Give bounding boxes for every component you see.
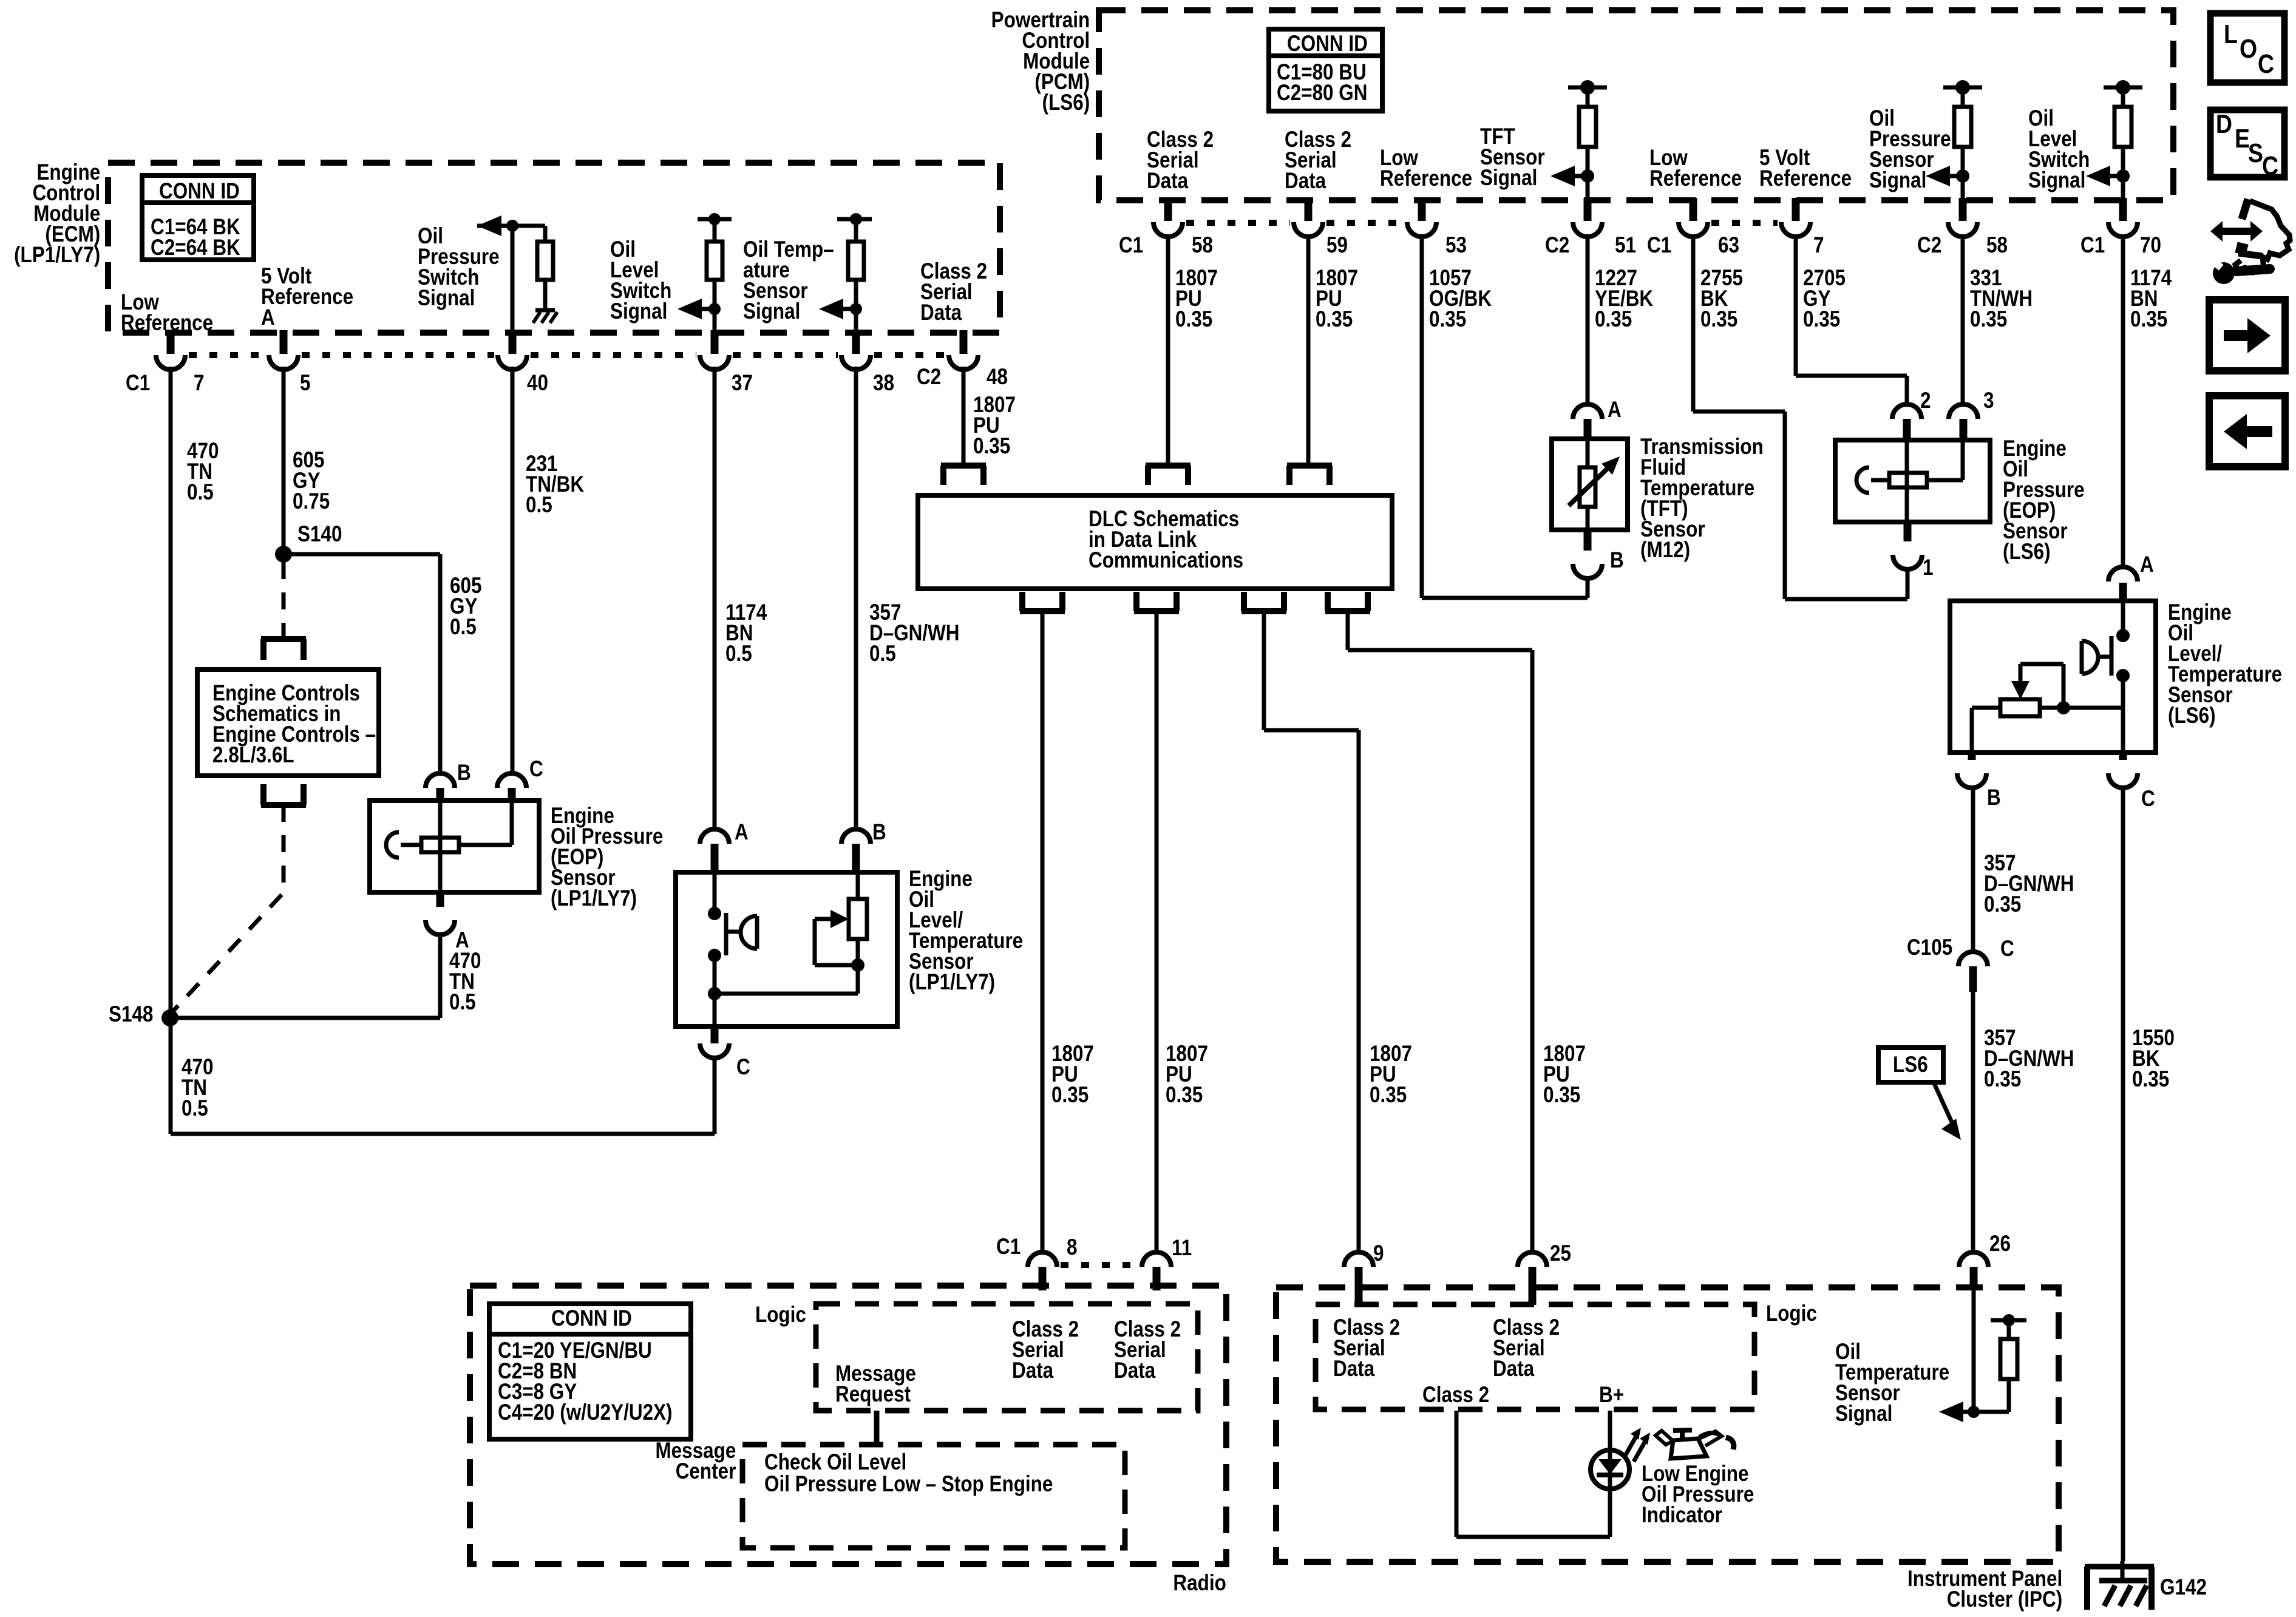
ECM pin connector arc at x=1587 (949, 355, 978, 370)
wire: 1807 PU 0.35 from ECM pin 48 to DLC (962, 367, 966, 464)
module box: Radio dashed outline (470, 1286, 1226, 1564)
label: 58 (1192, 235, 1213, 256)
label: 40 (527, 373, 548, 393)
label: 1807 PU 0.35 (973, 395, 1016, 456)
wire: message request from Radio logic to message center (874, 1411, 880, 1445)
wire: 605 GY 0.75 from ECM pin 5 to splice S140 (282, 367, 286, 554)
TFT pin B stub+arc (1584, 527, 1592, 551)
wire: 1550 BK 0.35 sensor C to ground G142 (2121, 787, 2125, 1561)
label: 7 (1813, 235, 1824, 256)
hand/tools icon: part outline with thumb bar (2242, 199, 2248, 219)
label: C2 (1545, 235, 1569, 256)
LVL LP1 pin B stub+arc (852, 844, 860, 875)
wire: pin40 vertical inside ECM (511, 226, 515, 331)
wire: 1807 PU 0.35 DLC to IPC pin 25 (1346, 611, 1350, 650)
label: C1 (1647, 235, 1671, 256)
label: Logic (1766, 1303, 1817, 1324)
navigation box: back arrow (2209, 396, 2285, 467)
label: 7 (194, 373, 204, 393)
PCM pin stub at x=2155 (1305, 198, 1313, 221)
label: Powertrain Control Module (PCM) (LS6) (991, 10, 1090, 113)
label: CONN ID (551, 1308, 632, 1329)
label: 1550 BK 0.35 (2132, 1028, 2175, 1090)
label: 1057 OG/BK 0.35 (1429, 268, 1492, 330)
PCM pin stub at x=2342 (1418, 198, 1426, 221)
wire: 357 D-GN/WH 0.35 sensor B to C105 (1971, 787, 1975, 952)
label: 5 (300, 373, 310, 393)
sensor box: Engine Oil Pressure (EOP) Sensor (LS6) (1835, 440, 1990, 522)
label: 59 (1326, 235, 1348, 256)
ECM pin connector arc at x=1177 (700, 355, 729, 370)
label: 8 (1067, 1237, 1077, 1258)
wire: 1807 PU 0.35 DLC to IPC pin 9 (1262, 611, 1266, 730)
label: 1174 BN 0.5 (725, 602, 767, 664)
ECM oil temperature sensor signal pull-up: T-bar, resistor, arrow (pin 38) (837, 217, 872, 222)
label: 9 (1373, 1243, 1384, 1264)
LVL LP1 float switch: contacts and float symbol (713, 872, 717, 914)
label: C1=20 YE/GN/BU C2=8 BN C3=8 GY C4=20 (w/U2Y/U2X) (498, 1340, 673, 1423)
PCM pin connector arc at x=2958 (1781, 222, 1810, 237)
CONN ID table (ECM) (142, 175, 254, 260)
label: 70 (2140, 235, 2161, 256)
EOP LP1 internal: arc electrode, resistor, link to pin C (386, 832, 399, 858)
dashed wire: Engine Controls box down then diagonal to S148 (282, 805, 286, 891)
label: 357 D–GN/WH 0.5 (869, 602, 960, 664)
label: 11 (1172, 1238, 1192, 1258)
wire: 331 TN/WH 0.35 PCM pin 58 C2 to EOP (LS6) pin 3 (1961, 236, 1965, 405)
EOP LS6 internal: arc electrode, resistor, link to pin 3 (1856, 467, 1869, 493)
label: 1807 PU 0.35 (1316, 268, 1358, 330)
label: Class 2 Serial Data (1285, 129, 1351, 191)
label: G142 (2160, 1577, 2207, 1598)
DLC bottom connector bracket at x=1905 (1134, 608, 1179, 614)
block: Engine Controls Schematics reference box (197, 670, 379, 776)
label: 1807 PU 0.35 (1051, 1043, 1094, 1105)
LVL LP1 pin C stub+arc (711, 1024, 719, 1043)
LVL LP1 thermistor: resistor, loop arrow, junction (715, 992, 858, 996)
TFT thermistor resistor (1586, 439, 1590, 467)
label: Oil Pressure Sensor Signal (1869, 108, 1951, 191)
IPC pin 25 arc+stub (1518, 1252, 1547, 1267)
module box: Powertrain Control Module (PCM) dashed outline (1099, 10, 2173, 200)
label: Class 2 Serial Data (1012, 1319, 1079, 1381)
label: Oil Level Switch Signal (2028, 108, 2090, 191)
label: Low Engine Oil Pressure Indicator (1642, 1463, 1754, 1525)
ECM pin stub at x=281 (167, 330, 175, 354)
PCM oil level switch signal pull-up: T-bar, resistor, junction, arrow (x=3497) (2104, 86, 2142, 90)
LVL LP1 pin A stub+arc (711, 844, 719, 875)
wire: S148 horizontal to EOP sensor pin A wire (170, 1016, 440, 1020)
label: Oil Pressure Switch Signal (418, 226, 500, 308)
label: A (2140, 554, 2154, 575)
label: C2 (1917, 235, 1941, 256)
ECM pin stub at x=844 (509, 330, 517, 354)
wire: 605 GY 0.5 from S140 right and down to EOP (LP1/LY7) pin B (284, 552, 440, 557)
label: 5 Volt Reference A (261, 266, 353, 328)
label: B (1610, 550, 1624, 571)
label: 38 (873, 373, 894, 393)
label: 331 TN/WH 0.35 (1970, 268, 2033, 330)
wire: 357 D-GN/WH 0.5 from ECM pin 38 to oil level/temp sensor pin B (854, 367, 858, 830)
label: Check Oil Level (764, 1452, 906, 1473)
LVL LS6 pin B stub+arc (1968, 750, 1976, 760)
ECM pin connector arc at x=844 (498, 355, 527, 370)
DLC bottom connector bracket at x=1717 (1020, 608, 1065, 614)
label: 470 TN 0.5 (182, 1057, 213, 1119)
EOP LS6 pin 2 stub+arc (1903, 419, 1911, 442)
label: Low Reference (1380, 147, 1472, 189)
label: Engine Control Module (ECM) (LP1/LY7) (14, 162, 100, 265)
label: B (1987, 787, 2001, 808)
EOP LP1 pin A stub+arc (436, 890, 444, 907)
label: Oil Pressure Low – Stop Engine (764, 1474, 1053, 1494)
LS6 callout box (1878, 1048, 1943, 1082)
hand/tools icon: double arrow (2221, 228, 2252, 235)
PCM pin stub at x=2958 (1792, 198, 1800, 221)
PCM pin connector arc at x=2789 (1679, 222, 1708, 237)
label: 470 TN 0.5 (449, 951, 481, 1012)
label: D (2216, 111, 2232, 138)
label: 3 (1983, 390, 1994, 411)
PCM pin connector arc at x=2342 (1407, 222, 1436, 237)
label: 51 (1615, 235, 1636, 256)
label: Class 2 Serial Data (1493, 1317, 1560, 1379)
ECM pin connector arc at x=1410 (841, 355, 871, 370)
wire: 1057 OG/BK 0.35 PCM pin 53 low reference to TFT sensor pin B (1420, 236, 1424, 598)
IPC pin 26 arc+stub (1959, 1252, 1988, 1267)
label: L (2224, 21, 2238, 48)
label: C (2141, 788, 2155, 809)
inline connector C105 arc+stub (1958, 952, 1988, 966)
label: Engine Controls Schematics in Engine Controls – 2.8L/3.6L (212, 683, 376, 765)
splice S140 (275, 546, 292, 563)
PCM pin connector arc at x=2155 (1294, 222, 1323, 237)
label: C1 (126, 373, 150, 393)
Radio pins dotted connector line (1061, 1262, 1138, 1268)
label: 1174 BN 0.35 (2130, 268, 2172, 330)
EOP LP1 pin C stub+arc (508, 788, 516, 803)
label: C105 (1907, 937, 1952, 958)
label: A (735, 822, 749, 842)
TFT pin A stub+arc (1584, 419, 1592, 441)
label: C1=64 BK C2=64 BK (151, 217, 240, 258)
label: 1807 PU 0.35 (1543, 1043, 1586, 1105)
label: 1807 PU 0.35 (1370, 1043, 1412, 1105)
label: Class 2 Serial Data (1147, 129, 1214, 191)
Radio pin 8 arc+stub (1028, 1252, 1057, 1267)
label: 48 (987, 367, 1008, 387)
ECM pin stub at x=1177 (711, 330, 719, 354)
wire: 1227 YE/BK 0.35 PCM pin 51 to TFT sensor pin A (1586, 236, 1590, 405)
ECM pin connector arc at x=467 (269, 355, 298, 370)
label: 37 (732, 373, 753, 393)
PCM pin stub at x=2789 (1690, 198, 1697, 221)
wire: B+ through LED indicator (1608, 1411, 1612, 1537)
PCM pin connector arc at x=2615 (1573, 222, 1602, 237)
label: 25 (1550, 1243, 1571, 1264)
CONN ID table (PCM) (1269, 29, 1382, 111)
wire: 357 D-GN/WH 0.35 C105 to IPC pin 26 (1971, 992, 1975, 1252)
label: 357 D–GN/WH 0.35 (1984, 1028, 2074, 1090)
label: 1 (1923, 557, 1933, 578)
LVL LS6 pin C stub+arc (2119, 750, 2127, 760)
LVL LS6 pin A stub+arc (2119, 583, 2127, 603)
logic block: IPC Logic dashed box (1316, 1304, 1754, 1409)
module box: Instrument Panel Cluster (IPC) dashed outline (1276, 1287, 2059, 1562)
PCM pin connector arc at x=1924 (1153, 222, 1183, 237)
label: Class 2 Serial Data (1333, 1317, 1400, 1379)
label: Engine Oil Level/ Temperature Sensor (LP1/LY7) (909, 869, 1023, 992)
label: LS6 (1893, 1054, 1928, 1075)
label: CONN ID (1287, 33, 1368, 54)
label: Low Reference (1649, 147, 1742, 189)
Radio pin 11 arc+stub (1142, 1252, 1171, 1267)
ground G142 symbol (2085, 1564, 2154, 1570)
DLC top connector bracket (from PCM 58) (1146, 463, 1190, 469)
CONN ID table (Radio) (489, 1304, 691, 1439)
wire: 1174 BN 0.35 PCM pin 70 to oil level/temp sensor (LS6) pin A (2121, 236, 2125, 569)
label: TFT Sensor Signal (1480, 126, 1545, 188)
label: 1227 YE/BK 0.35 (1595, 268, 1653, 330)
label: 2705 GY 0.35 (1803, 268, 1846, 330)
label: B (457, 762, 471, 783)
PCM pin stub at x=1924 (1164, 198, 1172, 221)
PCM pin stub at x=2615 (1584, 198, 1592, 221)
label: CONN ID (159, 181, 240, 202)
label: C (2000, 938, 2014, 959)
label: Class 2 Serial Data (920, 261, 987, 323)
label: Class 2 (1422, 1385, 1489, 1405)
sensor box: Transmission Fluid Temperature (TFT) Sensor (M12) (1552, 439, 1628, 530)
label: S (2248, 140, 2263, 167)
label: Instrument Panel Cluster (IPC) (1907, 1568, 2062, 1610)
label: B+ (1599, 1385, 1624, 1405)
DLC top connector bracket (from ECM 48) (941, 463, 986, 469)
label: C1 (2080, 235, 2105, 256)
label: C (2262, 153, 2278, 180)
label: Engine Oil Level/ Temperature Sensor (LS6) (2168, 602, 2282, 726)
PCM pin connector arc at x=3497 (2108, 222, 2138, 237)
label: C (736, 1057, 750, 1077)
message center dashed box (742, 1445, 1125, 1548)
block: DLC Schematics in Data Link Communications (918, 495, 1392, 589)
label: Message Request (835, 1363, 916, 1405)
label: 231 TN/BK 0.5 (526, 453, 584, 515)
ECM connector dotted line C1/C2 (189, 352, 265, 358)
ECM pin stub at x=467 (280, 330, 288, 354)
wire: 1807 PU 0.35 DLC to Radio pin 8 (1041, 611, 1045, 1252)
label: S148 (109, 1004, 153, 1025)
DLC bottom connector bracket at x=2082 (1241, 608, 1286, 614)
ground (ECM internal, oil pressure switch) (535, 308, 555, 313)
label: C (2258, 51, 2274, 78)
PCM pin stub at x=3233 (1959, 198, 1967, 221)
label: Message Center (655, 1440, 736, 1482)
wire: 2705 GY 0.35 PCM pin 7 5-volt reference to EOP (LS6) pin 2 (1794, 236, 1798, 376)
label: 605 GY 0.75 (293, 450, 330, 512)
wire: 2755 BK 0.35 PCM pin 63 low reference to EOP (LS6) pin 1 (1691, 236, 1696, 412)
PCM pin connector arc at x=3233 (1948, 222, 1977, 237)
LS6 callout arrow (1934, 1082, 1953, 1125)
label: 26 (1989, 1233, 2011, 1254)
LED indicator: Low Engine Oil Pressure Indicator (1591, 1450, 1629, 1489)
dashed wire: S140 down to Engine Controls Schematics box (282, 562, 286, 639)
bracket connector below Engine Controls box (261, 802, 306, 808)
wire: IPC class 2 serial data to indicator loop (1455, 1411, 1459, 1537)
label: C2 (917, 367, 941, 387)
PCM connector dotted line (1186, 220, 1290, 226)
label: Transmission Fluid Temperature (TFT) Sensor (M12) (1640, 436, 1764, 560)
sensor box: Engine Oil Pressure (EOP) Sensor (LP1/LY7) (370, 801, 539, 892)
label: 2755 BK 0.35 (1700, 268, 1743, 330)
DLC bottom connector bracket at x=2220 (1325, 608, 1370, 614)
label: S140 (297, 524, 342, 544)
sensor box: Engine Oil Level/Temperature Sensor (LS6) (1950, 601, 2156, 753)
hand/tools icon: wrench (2213, 262, 2235, 284)
wire: 1807 PU 0.35 PCM pin 59 to DLC (1306, 236, 1311, 464)
LED lightning arrows (1625, 1434, 1637, 1457)
label: Radio (1173, 1573, 1226, 1593)
sensor box: Engine Oil Level/Temperature Sensor (LP1/LY7) (676, 872, 897, 1026)
IPC oil temperature sensor signal: T-bar, resistor, arrow motif (1972, 1289, 1976, 1412)
wire: 1807 PU 0.35 DLC to Radio pin 11 (1155, 611, 1159, 1252)
wire: 1174 BN 0.5 from ECM pin 37 to oil level/temp sensor pin A (713, 367, 717, 830)
module box: Engine Control Module (ECM) dashed outline (108, 163, 1000, 333)
label: 1807 PU 0.35 (1166, 1043, 1208, 1105)
label: 605 GY 0.5 (450, 575, 481, 637)
label: 1807 PU 0.35 (1175, 268, 1218, 330)
PCM pin stub at x=3497 (2119, 198, 2127, 221)
label: Oil Temperature Sensor Signal (1835, 1341, 1949, 1424)
label: 357 D–GN/WH 0.35 (1984, 853, 2074, 915)
label: 58 (1986, 235, 2008, 256)
navigation box: forward arrow (2209, 300, 2285, 371)
PCM oil pressure sensor signal pull-up: T-bar, resistor, junction, arrow (x=3233) (1943, 86, 1982, 90)
label: B (872, 822, 886, 842)
ECM pin connector arc at x=281 (156, 355, 185, 370)
label: E (2235, 126, 2250, 152)
label: Logic (755, 1304, 806, 1325)
label: Engine Oil Pressure (EOP) Sensor (LS6) (2003, 438, 2085, 562)
EOP LP1 pin B stub+arc (436, 788, 444, 803)
label: C1 (1119, 235, 1143, 256)
ECM pin stub at x=1587 (960, 330, 968, 354)
label: 2 (1920, 390, 1931, 411)
label: C1=80 BU C2=80 GN (1277, 62, 1367, 103)
label: A (455, 930, 469, 951)
label: Class 2 Serial Data (1114, 1319, 1181, 1381)
label: Low Reference (121, 292, 213, 333)
logic block: Radio Logic dashed box (816, 1304, 1198, 1411)
wire: 1807 PU 0.35 PCM pin 58 C1 to DLC (1166, 236, 1170, 464)
label: Oil Temp– ature Sensor Signal (743, 239, 834, 322)
oil can icon (1671, 1439, 1707, 1459)
DESC navigation box (2210, 110, 2284, 177)
label: Oil Level Switch Signal (610, 239, 671, 322)
label: C1 (996, 1236, 1021, 1257)
LVL LS6 thermistor: resistor, loop arrow, junction (2040, 706, 2123, 710)
label: 63 (1718, 235, 1739, 256)
LOC navigation box (2210, 13, 2284, 83)
TFT variable-resistor diagonal arrow (1569, 464, 1612, 506)
ECM oil pressure switch signal: arrow, junction, resistor, ground (pin 40) (477, 215, 501, 236)
LVL LS6 float switch: contacts and float symbol (2121, 603, 2125, 636)
label: C (529, 759, 543, 779)
ECM pin stub at x=1410 (852, 330, 860, 354)
bracket connector above Engine Controls box (261, 636, 306, 642)
ECM oil level switch signal pull-up: T-bar, resistor, arrow (pin 37) (698, 217, 732, 222)
EOP LS6 pin 1 stub+arc (1904, 520, 1912, 541)
label: 53 (1445, 235, 1467, 256)
IPC pin 9 arc+stub (1344, 1252, 1373, 1267)
label: A (1608, 399, 1622, 420)
label: 5 Volt Reference (1759, 147, 1852, 189)
splice S148 (161, 1009, 178, 1026)
label: O (2240, 36, 2257, 63)
label: 470 TN 0.5 (187, 441, 219, 503)
label: DLC Schematics in Data Link Communications (1089, 509, 1243, 571)
PCM TFT sensor signal pull-up: T-bar, resistor, junction, arrow (x=2615) (1568, 86, 1607, 90)
DLC top connector bracket (from PCM 59) (1287, 463, 1332, 469)
label: Engine Oil Pressure (EOP) Sensor (LP1/LY7) (551, 805, 663, 909)
EOP LS6 pin 3 stub+arc (1960, 419, 1968, 442)
wire: 470 TN 0.5 from ECM pin 7 down through S148 to sensor pin C (low reference) (169, 367, 173, 1134)
wire: 231 TN/BK 0.5 from ECM pin 40 to EOP (LP1/LY7) pin C (511, 367, 515, 774)
